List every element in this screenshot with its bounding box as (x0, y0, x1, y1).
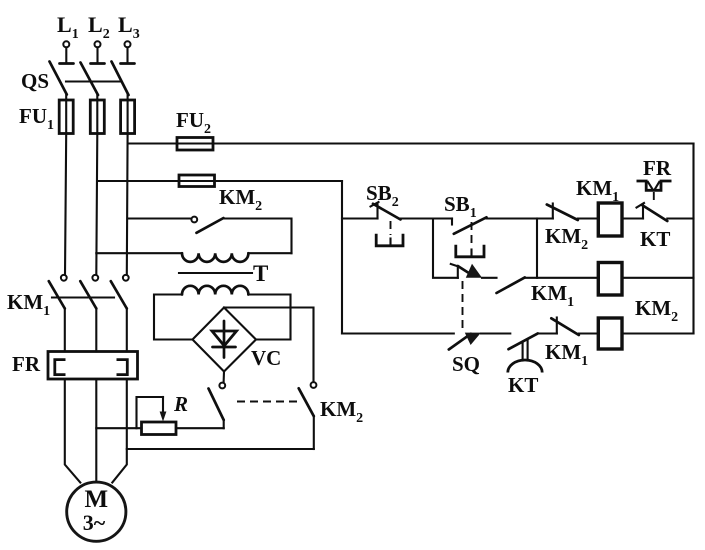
time relay KT delayed closing contact (508, 333, 542, 372)
svg-text:M: M (84, 486, 108, 513)
travel switch SQ upper NO contact with arrow (451, 264, 482, 278)
contactor contact KM1 interlock NC (551, 318, 579, 336)
wire KM2 contact to primary (224, 219, 292, 254)
wire branch down to row2 (536, 219, 538, 278)
svg-text:KT: KT (508, 373, 538, 397)
contactor contact KM1 main pole3 (111, 275, 129, 352)
wire KM1 aux to KT coil (525, 277, 598, 279)
svg-text:KT: KT (640, 227, 670, 251)
wire phase3 FR to motor (112, 379, 127, 483)
pushbutton SB2 NC contact (371, 202, 401, 220)
contactor contact KM1 main pole2 (80, 275, 98, 352)
switch QS (21, 62, 129, 96)
coil KM2 (598, 318, 622, 349)
rectifier VC diamond (193, 308, 257, 372)
contactor contact KM1 main pole1 (49, 275, 67, 352)
thermal relay FR heater box (48, 352, 138, 380)
wire KT contact to KM1 interlock (538, 332, 557, 334)
fuse FU2 lower (179, 175, 215, 187)
wire SQ upper contact to KM1 aux (482, 277, 497, 279)
svg-text:QS: QS (21, 69, 49, 93)
thermal relay FR trip mechanism (637, 181, 672, 190)
wire phase2 to KM1 (96, 134, 97, 275)
fuse FU1 pole2 (90, 100, 104, 134)
linkage KM2 braking dashed (237, 401, 297, 403)
svg-text:R: R (173, 392, 188, 416)
coil KM1 (598, 203, 622, 236)
wire control second rail (97, 180, 342, 182)
svg-text:3~: 3~ (83, 510, 106, 535)
coil KT (598, 263, 622, 296)
wire FR contact to right rail (667, 217, 693, 219)
thermal relay FR NC contact (637, 203, 668, 221)
wire control left rail (341, 181, 343, 334)
wire phase3 top (127, 95, 129, 100)
contactor contact KM1 aux NO (self hold) (497, 277, 525, 293)
svg-text:FR: FR (643, 156, 672, 180)
resistor R (96, 422, 223, 435)
wire phase3 to KM2 contact (128, 217, 191, 219)
wire control top rail (128, 142, 694, 144)
svg-text:T: T (253, 261, 268, 286)
contactor contact KM2 braking right (299, 382, 317, 449)
fuse FU2 upper (177, 138, 213, 151)
svg-text:FR: FR (12, 352, 41, 376)
wire KT coil to right rail (622, 277, 694, 279)
wire VC plus output (224, 308, 314, 382)
wire braking return to phase3 (127, 448, 314, 450)
contactor contact KM2 braking left (209, 383, 226, 429)
thermal relay FR heater element right (117, 360, 128, 375)
wire SB2 to SB1 (401, 217, 453, 219)
wire phase2 FR to motor (95, 379, 97, 483)
contactor contact KM2 transformer NO (191, 217, 223, 233)
wire KM2 coil to right rail (622, 332, 694, 334)
wire control right rail (692, 144, 694, 334)
node L3 (118, 12, 140, 64)
svg-text:VC: VC (251, 346, 281, 370)
pushbutton SB1 NO contact (452, 217, 487, 234)
linkage FR dashed (653, 192, 655, 204)
wire KM1 interlock to KM2 coil (579, 332, 598, 334)
wire phase1 to KM1 (65, 134, 66, 275)
wire SQ to KT contact (481, 332, 510, 334)
linkage SQ dashed (462, 281, 464, 332)
fuse FU1 pole3 (121, 100, 135, 134)
travel switch SQ lower contact with arrow (449, 333, 481, 350)
linkage KM1 main (52, 296, 114, 298)
pushbutton SB2 actuator (376, 221, 403, 246)
wire row3 from left rail (342, 332, 454, 334)
wire SB1 bypass bracket (433, 219, 458, 278)
wire phase2 top (96, 95, 98, 100)
wire phase1 top (65, 95, 67, 101)
node L1 (57, 12, 79, 64)
wire KM1 coil to FR contact (622, 217, 643, 219)
wire row1 from left rail (342, 217, 378, 219)
pushbutton SB1 actuator (456, 222, 484, 257)
wire SB1 to KM2 interlock (487, 217, 553, 219)
svg-text:SQ: SQ (452, 352, 480, 376)
transformer T primary (96, 253, 291, 262)
motor M (67, 482, 126, 541)
wire VC minus output (223, 372, 225, 383)
contactor contact KM2 interlock NC (547, 204, 578, 221)
thermal relay FR heater element left (55, 360, 66, 375)
transformer T secondary (154, 286, 291, 340)
node L2 (88, 12, 110, 64)
resistor R wiper arrow (137, 397, 167, 428)
fuse FU1 pole1 (59, 100, 73, 134)
wire phase3 to KM1 (126, 134, 129, 275)
wire KM2 interlock to KM1 coil (578, 217, 598, 219)
transformer T core (179, 272, 252, 274)
rectifier VC diode (212, 321, 237, 358)
wire phase1 FR to motor (65, 379, 81, 483)
